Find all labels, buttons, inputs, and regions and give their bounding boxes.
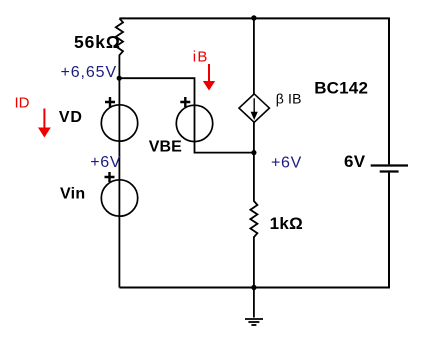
svg-text:ID: ID [15, 94, 30, 111]
svg-text:Vin: Vin [60, 186, 86, 203]
svg-text:BC142: BC142 [314, 78, 368, 97]
svg-text:+6,65V: +6,65V [61, 64, 118, 81]
svg-text:VBE: VBE [149, 139, 182, 156]
svg-text:β IB: β IB [276, 90, 302, 106]
svg-text:56kΩ: 56kΩ [74, 32, 121, 52]
svg-text:VD: VD [59, 109, 83, 126]
svg-text:+6V: +6V [271, 154, 302, 171]
svg-text:1kΩ: 1kΩ [270, 214, 303, 233]
svg-text:iB: iB [193, 49, 209, 66]
svg-text:6V: 6V [344, 152, 366, 171]
svg-text:+6V: +6V [90, 154, 121, 171]
